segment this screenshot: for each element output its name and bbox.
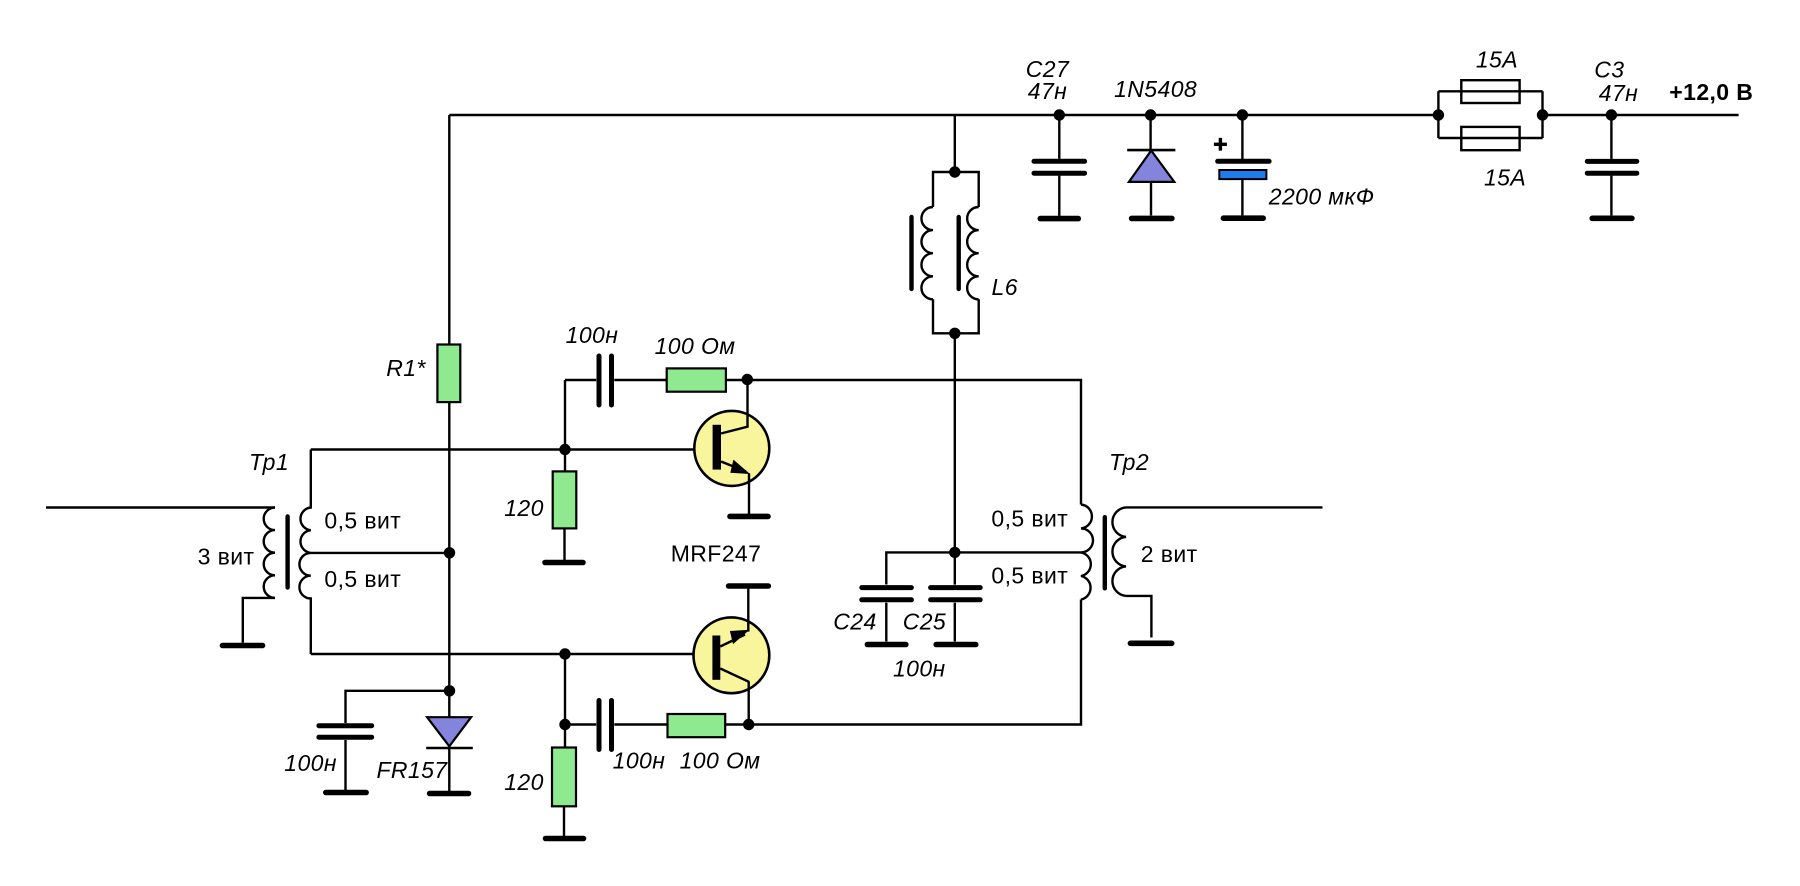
- svg-text:100н: 100н: [893, 656, 946, 682]
- fuse 15A top: [1461, 80, 1519, 103]
- svg-text:FR157: FR157: [376, 757, 448, 783]
- wire R1 bottom vertical down to FR157: [448, 402, 450, 717]
- fuse 15A bottom: [1461, 127, 1519, 150]
- node upper collector: [742, 374, 753, 385]
- node center tap R1: [444, 547, 455, 558]
- wire upper coupling cap branch: [565, 379, 667, 381]
- transformer Tp1 core bar: [285, 517, 289, 588]
- wire Tp2 secondary to ground: [1126, 596, 1151, 638]
- capacitor 100n left: [319, 726, 372, 738]
- node 1N5408 rail: [1145, 109, 1156, 120]
- svg-text:3 вит: 3 вит: [198, 544, 255, 570]
- ground upper 120: [545, 560, 583, 566]
- transformer Tp1 secondary upper winding: [300, 450, 310, 553]
- plus sign 2200uF: [1214, 138, 1227, 151]
- resistor R1: [437, 345, 460, 403]
- node Tp2 center tap: [949, 547, 960, 558]
- transistor VT1 upper MRF247: [694, 381, 769, 514]
- transformer Tp2 secondary winding: [1112, 507, 1126, 596]
- svg-text:0,5 вит: 0,5 вит: [324, 508, 401, 534]
- ground 1N5408: [1132, 216, 1172, 222]
- svg-text:1N5408: 1N5408: [1114, 76, 1197, 102]
- svg-text:120: 120: [504, 769, 544, 795]
- svg-text:100 Ом: 100 Ом: [655, 333, 736, 359]
- resistor 120 lower: [552, 748, 576, 807]
- node fuse right: [1537, 109, 1548, 120]
- svg-text:0,5 вит: 0,5 вит: [324, 566, 401, 592]
- node fuse left: [1433, 109, 1444, 120]
- node FR157 junction: [444, 685, 455, 696]
- transformer Tp2 core bar: [1103, 517, 1107, 588]
- svg-text:R1*: R1*: [386, 355, 426, 381]
- capacitor C3: [1587, 115, 1637, 215]
- svg-text:C24: C24: [833, 609, 876, 635]
- transformer Tp2 left upper winding: [1081, 505, 1093, 553]
- node upper base junction: [559, 444, 570, 455]
- capacitor 100n upper coupling: [599, 356, 612, 405]
- wire upper 120 branch: [564, 380, 566, 471]
- ground C3: [1592, 216, 1632, 222]
- ground lower emitter top bar: [729, 583, 769, 589]
- node lower collector: [743, 719, 754, 730]
- ground Tp1 primary: [223, 643, 263, 649]
- ground C27: [1040, 216, 1078, 222]
- svg-text:2200 мкФ: 2200 мкФ: [1268, 184, 1375, 210]
- wire +12V rail left segment: [449, 114, 1438, 116]
- diode 1N5408: [1127, 115, 1175, 215]
- capacitor 100n lower coupling: [599, 701, 612, 750]
- ground left cap: [326, 790, 366, 796]
- node L6 bottom: [949, 328, 960, 339]
- svg-text:L6: L6: [992, 274, 1018, 300]
- wire upper resistor to collector node: [726, 379, 747, 381]
- svg-text:47н: 47н: [1028, 78, 1067, 104]
- ground 2200uF: [1223, 215, 1263, 221]
- capacitor C27: [1034, 115, 1085, 216]
- ground FR157: [430, 791, 469, 797]
- wire lower 120 branch vertical: [564, 654, 566, 748]
- inductor L6 right winding: [967, 207, 979, 299]
- node lower cap junction: [559, 719, 570, 730]
- svg-text:0,5 вит: 0,5 вит: [991, 506, 1068, 532]
- wire lower collector to Tp2: [749, 600, 1081, 725]
- wire Tp2 output: [1126, 506, 1323, 508]
- svg-text:MRF247: MRF247: [671, 541, 762, 567]
- wire C24 to ground: [885, 603, 887, 642]
- ground lower 120: [546, 836, 584, 842]
- svg-text:120: 120: [504, 495, 544, 521]
- wire Tp1 center tap: [311, 552, 450, 554]
- wire upper base line: [311, 448, 713, 450]
- svg-text:+12,0 В: +12,0 В: [1669, 79, 1753, 105]
- node L6 top: [949, 166, 960, 177]
- resistor 100 Ом upper: [667, 368, 726, 391]
- transistor VT2 lower MRF247: [694, 589, 770, 725]
- svg-text:100н: 100н: [284, 750, 337, 776]
- ground Tp2: [1130, 640, 1171, 646]
- wire Tp1 primary to ground: [243, 598, 275, 643]
- resistor 100 Ом lower: [668, 714, 726, 737]
- diode FR157: [426, 717, 473, 791]
- node C3 rail: [1606, 109, 1617, 120]
- wire lower coupling cap branch: [565, 723, 668, 725]
- node 2200uF rail: [1237, 109, 1248, 120]
- wire Tp2 center tap: [886, 552, 1081, 584]
- capacitor C25: [931, 588, 981, 600]
- svg-text:Тр2: Тр2: [1109, 449, 1149, 475]
- svg-text:2 вит: 2 вит: [1141, 541, 1198, 567]
- wire upper collector to Tp2: [747, 380, 1081, 505]
- capacitor 2200uF electrolytic: [1218, 115, 1269, 215]
- inductor L6 frame: [933, 172, 979, 333]
- node lower base junction: [559, 648, 570, 659]
- wire R1 branch top vertical: [448, 115, 450, 345]
- node C27 rail: [1054, 109, 1065, 120]
- wire left cap to ground: [344, 740, 346, 790]
- capacitor C24: [862, 588, 912, 600]
- svg-text:100н: 100н: [566, 322, 619, 348]
- svg-text:0,5 вит: 0,5 вит: [991, 563, 1068, 589]
- ground C24: [867, 642, 905, 648]
- wire upper 120 to ground: [563, 528, 565, 560]
- svg-text:47н: 47н: [1599, 80, 1638, 106]
- svg-text:100 Ом: 100 Ом: [680, 748, 761, 774]
- transformer Tp2 left lower winding: [1081, 552, 1091, 599]
- ground upper emitter: [730, 514, 768, 520]
- inductor L6 left winding: [921, 207, 933, 299]
- wire +12V rail right segment: [1543, 114, 1739, 116]
- wire lower resistor to collector node: [725, 723, 749, 725]
- wire C25 to ground: [954, 603, 956, 642]
- svg-text:15A: 15A: [1476, 47, 1518, 73]
- svg-text:C3: C3: [1594, 56, 1624, 82]
- inductor L6 right core bar: [957, 217, 961, 289]
- wire FR157 node to left cap: [346, 691, 450, 723]
- svg-text:15A: 15A: [1484, 165, 1526, 191]
- wire lower base line: [311, 653, 713, 655]
- wire lower 120 to ground: [563, 806, 565, 836]
- wire fuse bracket: [1438, 91, 1542, 138]
- svg-text:100н: 100н: [613, 748, 666, 774]
- wire input lead: [46, 506, 275, 508]
- ground C25: [936, 642, 976, 648]
- resistor 120 upper: [553, 471, 577, 528]
- svg-text:Тр1: Тр1: [249, 449, 289, 475]
- transformer Tp1 secondary lower winding: [299, 553, 310, 654]
- inductor L6 left core bar: [909, 217, 913, 289]
- wire L6 bottom stem to C25: [954, 333, 956, 584]
- transformer Tp1 primary winding: [264, 508, 275, 598]
- svg-text:C25: C25: [903, 609, 946, 635]
- wire L6 top stem: [954, 115, 956, 172]
